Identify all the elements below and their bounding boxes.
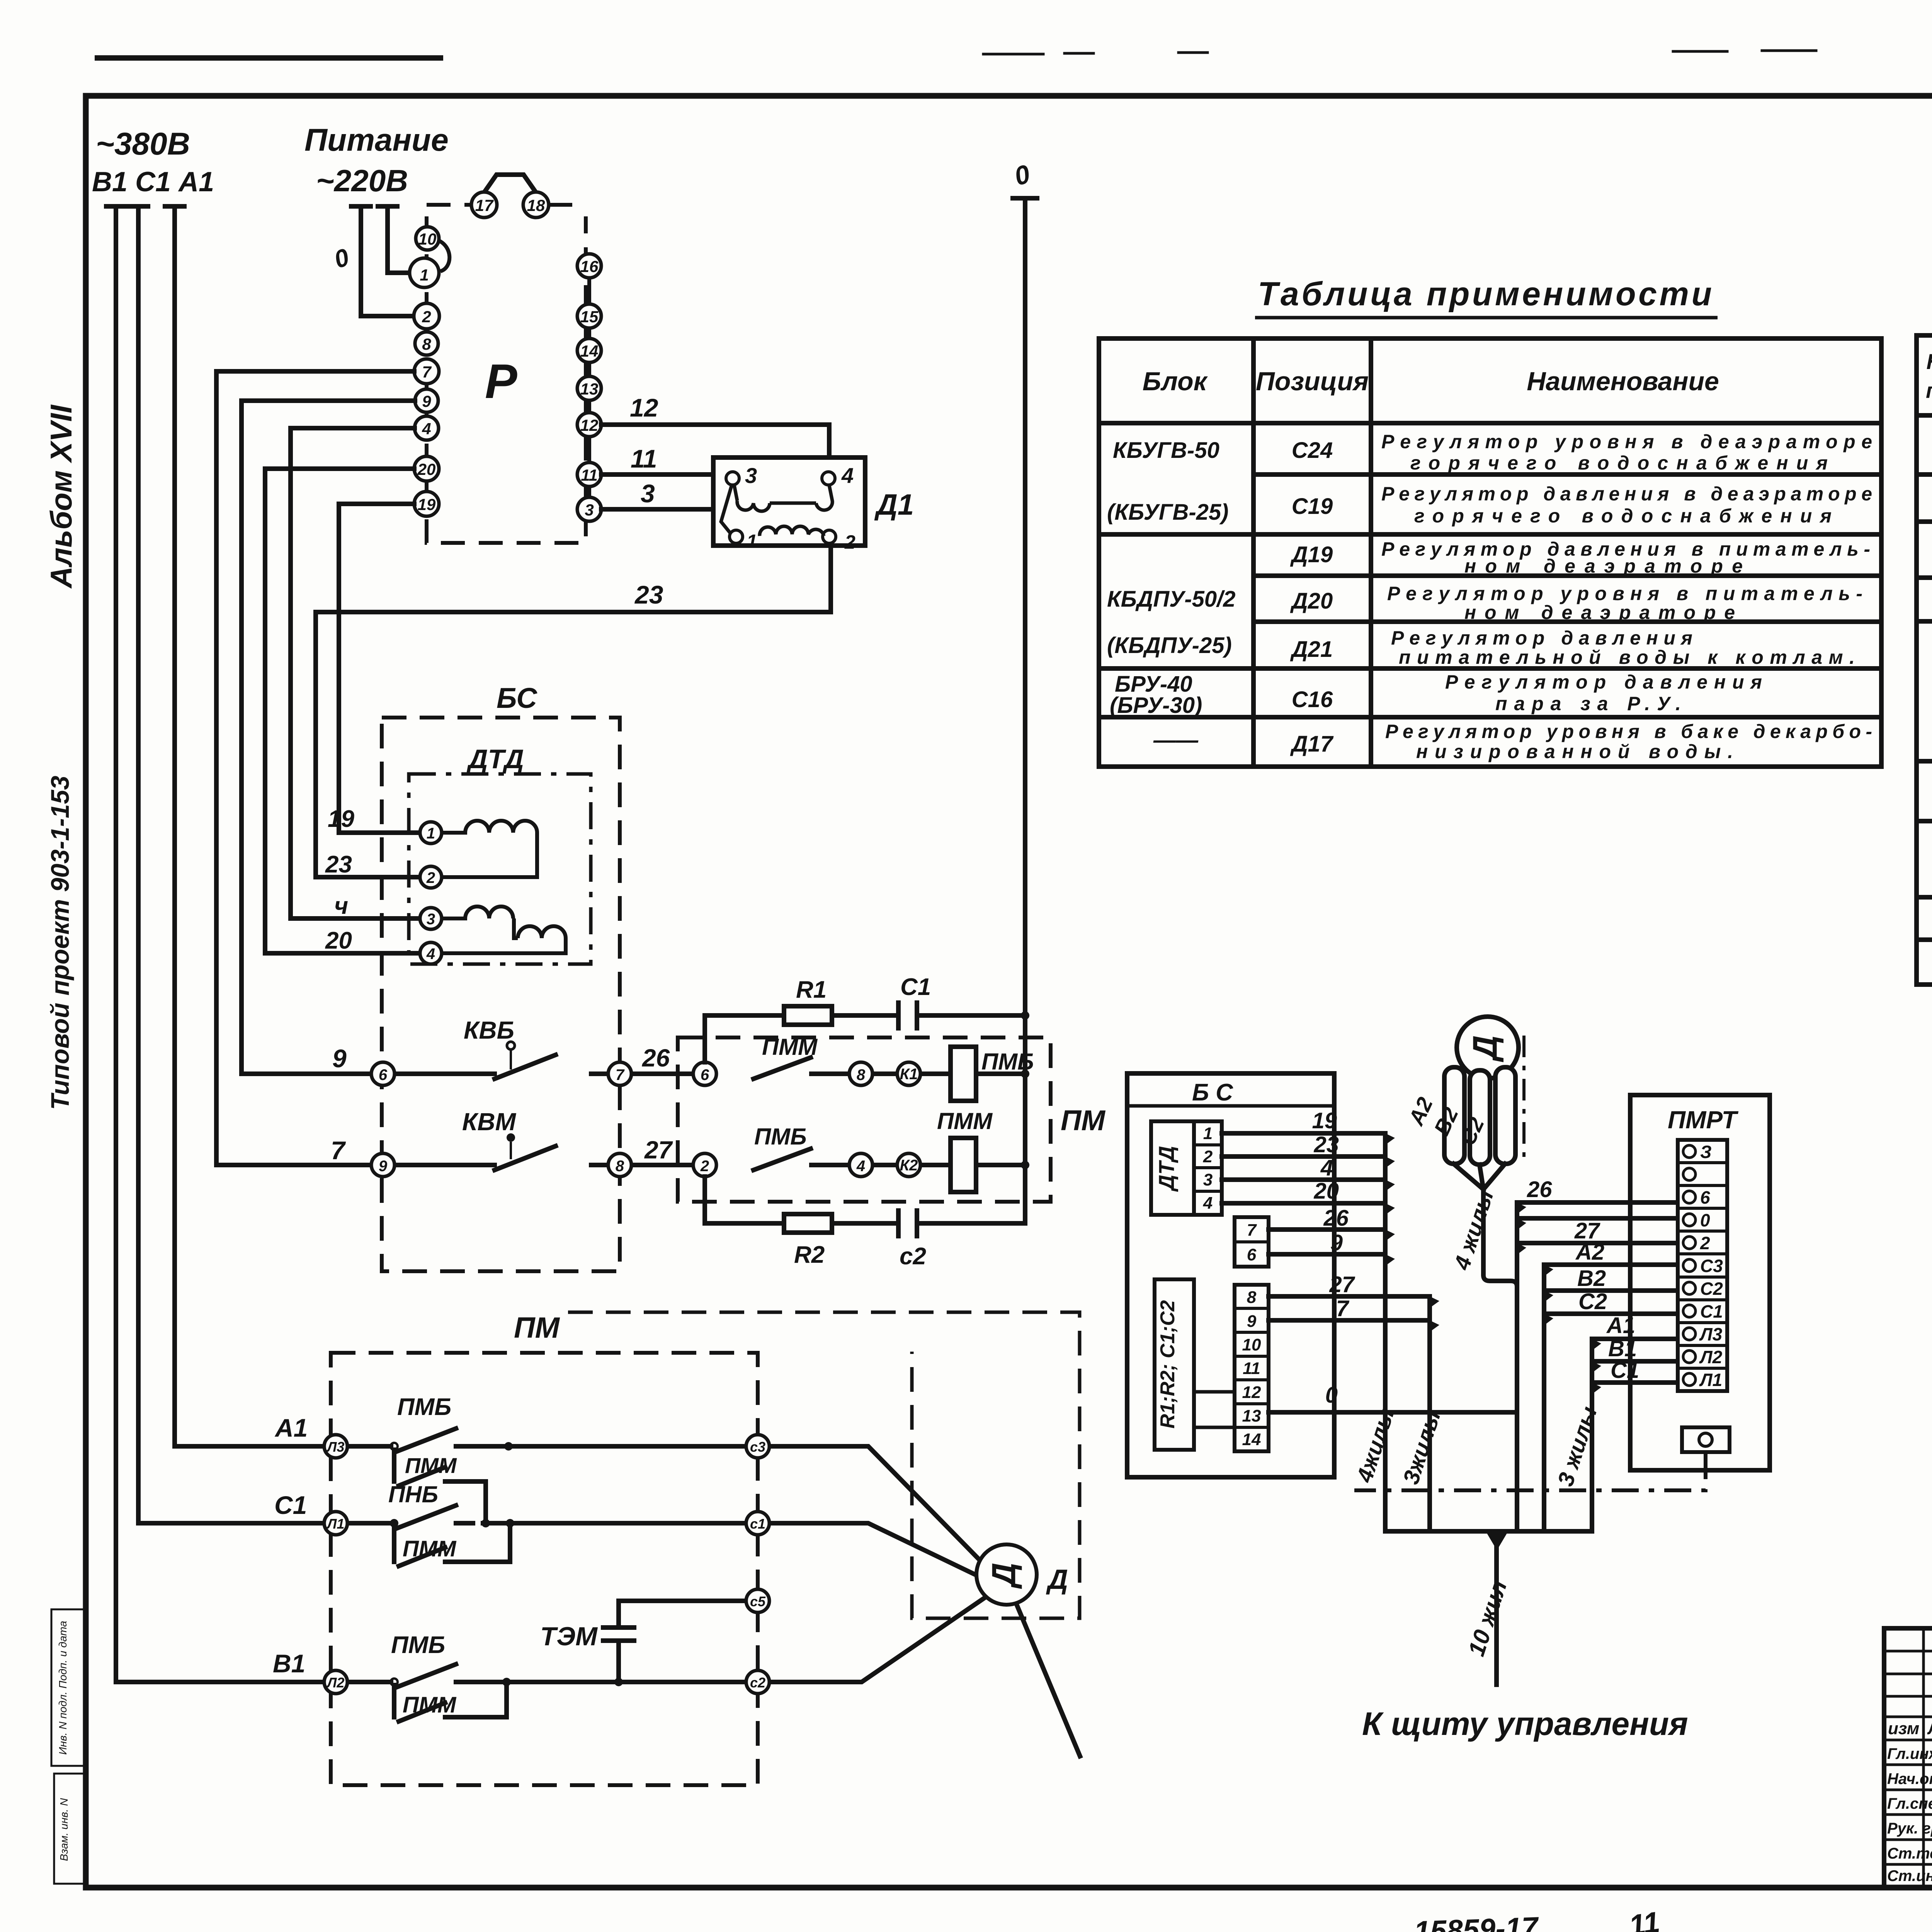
- svg-text:14: 14: [1242, 1430, 1261, 1449]
- svg-text:~220В: ~220В: [316, 163, 408, 198]
- svg-text:ДТД: ДТД: [466, 744, 524, 774]
- svg-text:З: З: [1700, 1142, 1712, 1162]
- wire B1 row: [116, 1680, 746, 1684]
- svg-text:с2: с2: [900, 1243, 926, 1270]
- terminals P right column chain: [587, 266, 591, 509]
- perechen grid: [1917, 335, 1932, 985]
- svg-text:Типовой проект 903-1-153: Типовой проект 903-1-153: [46, 776, 74, 1110]
- svg-text:Л3: Л3: [326, 1439, 345, 1455]
- wire A1: [1592, 1337, 1678, 1341]
- svg-text:0: 0: [1325, 1383, 1338, 1408]
- svg-text:С16: С16: [1292, 687, 1333, 712]
- svg-text:С19: С19: [1292, 494, 1333, 519]
- svg-text:1: 1: [420, 266, 429, 284]
- svg-text:(КБДПУ-25): (КБДПУ-25): [1107, 633, 1232, 658]
- wire C3 to motor: [769, 1446, 981, 1561]
- wire 220V feed to terminal 2: [361, 206, 414, 316]
- svg-text:13: 13: [580, 380, 599, 398]
- svg-text:Д: Д: [1046, 1564, 1068, 1595]
- svg-text:2: 2: [700, 1158, 709, 1175]
- svg-text:С1: С1: [1611, 1358, 1639, 1383]
- svg-text:Р: Р: [485, 355, 517, 408]
- wire 26: [1517, 1200, 1678, 1205]
- wire 220V feed to terminal 1: [388, 206, 410, 273]
- svg-text:ПММ: ПММ: [403, 1692, 457, 1718]
- svg-text:ПММ: ПММ: [937, 1108, 993, 1134]
- switch KVM pivot: [507, 1133, 515, 1142]
- svg-text:КБУГВ-50: КБУГВ-50: [1113, 438, 1219, 463]
- wire 12 (P:12 to D1:4): [601, 425, 829, 457]
- motor terminal capsule A2: [1444, 1067, 1464, 1164]
- wire C2: [1544, 1311, 1678, 1316]
- servomotor dash box: [568, 1312, 1080, 1618]
- wire 26: [1269, 1227, 1385, 1232]
- svg-text:20: 20: [325, 927, 352, 954]
- svg-text:~380В: ~380В: [96, 126, 190, 162]
- svg-text:15: 15: [580, 308, 599, 326]
- wire 20: [1222, 1201, 1385, 1206]
- svg-text:8: 8: [857, 1066, 866, 1083]
- svg-text:6: 6: [1247, 1245, 1257, 1264]
- svg-text:12: 12: [580, 416, 599, 434]
- D1 windings: [721, 485, 832, 536]
- wire B1 bus: [114, 206, 118, 1682]
- svg-text:К2: К2: [900, 1157, 918, 1174]
- wire C1 to motor: [769, 1523, 978, 1576]
- junction dots lower PM: [391, 1443, 398, 1450]
- cable bundle V1: [1383, 1133, 1388, 1531]
- brake TEM capacitor: [603, 1601, 746, 1679]
- svg-text:12: 12: [630, 393, 658, 422]
- wire 20 (P:20 to DTD:4): [265, 469, 420, 953]
- svg-text:ПММ: ПММ: [403, 1536, 457, 1561]
- svg-text:10: 10: [418, 230, 437, 248]
- svg-text:6: 6: [1700, 1187, 1710, 1207]
- svg-text:Позиция: Позиция: [1256, 367, 1369, 396]
- svg-text:6: 6: [379, 1066, 388, 1083]
- switch KVB pivot: [507, 1042, 515, 1049]
- regulator P dashed box: [427, 205, 586, 543]
- DTD terminals 1-4: [420, 822, 442, 964]
- svg-text:3: 3: [585, 501, 594, 519]
- svg-text:Д21: Д21: [1290, 637, 1333, 662]
- svg-text:4: 4: [1203, 1194, 1213, 1213]
- svg-text:27: 27: [644, 1136, 673, 1164]
- resistor R1 / capacitor C1 bypass: [705, 1003, 1025, 1236]
- svg-text:2: 2: [422, 308, 431, 326]
- svg-text:Гл.инж.пр: Гл.инж.пр: [1887, 1745, 1932, 1762]
- block BS dashed box: [382, 718, 620, 1271]
- svg-text:В1 С1 А1: В1 С1 А1: [92, 167, 214, 197]
- svg-text:питательной воды к кот: питательной воды к котлам.: [1399, 646, 1855, 668]
- svg-text:23: 23: [634, 580, 663, 609]
- signature table: [1884, 1628, 1932, 1888]
- switch PMM blade row1: [753, 1058, 811, 1079]
- svg-text:(БРУ-30): (БРУ-30): [1110, 693, 1202, 718]
- svg-text:3: 3: [745, 463, 757, 488]
- svg-text:2: 2: [844, 531, 855, 553]
- svg-text:с1: с1: [750, 1516, 765, 1532]
- svg-text:п/п: п/п: [1926, 378, 1932, 403]
- svg-text:ТЭМ: ТЭМ: [540, 1622, 598, 1651]
- svg-text:Наименование: Наименование: [1527, 367, 1719, 396]
- jumper loop 10-1: [438, 240, 449, 271]
- wire 9: [1269, 1252, 1385, 1257]
- svg-text:R1;R2; С1;С2: R1;R2; С1;С2: [1156, 1300, 1179, 1429]
- svg-text:ПМБ: ПМБ: [754, 1124, 807, 1150]
- wire (blank): [1517, 1216, 1678, 1221]
- node ~380V bus ticks: [106, 204, 184, 209]
- wire 3 (P:3 to D1:1): [601, 507, 713, 512]
- coil K1 (PMB): [951, 1047, 976, 1101]
- svg-text:ч: ч: [334, 893, 348, 919]
- svg-text:К1: К1: [900, 1066, 918, 1083]
- junction dots on 0 bus: [1021, 1011, 1029, 1020]
- node 0 bus tick: [1010, 196, 1039, 201]
- jumper arc 17-18: [484, 175, 536, 192]
- svg-text:КВМ: КВМ: [462, 1108, 517, 1136]
- svg-text:10: 10: [1242, 1335, 1261, 1354]
- svg-text:23: 23: [1313, 1132, 1339, 1157]
- svg-text:7: 7: [616, 1066, 625, 1083]
- DTD winding 1-2: [442, 821, 566, 953]
- svg-text:Гл.спец.: Гл.спец.: [1887, 1795, 1932, 1812]
- DTD winding 3-4: [442, 906, 513, 918]
- svg-text:4: 4: [841, 463, 854, 488]
- wire 9 (P:9 to KVB row): [241, 401, 415, 1074]
- wires BS to cable bundles: [1222, 1133, 1517, 1531]
- wire 0 bus vertical: [1023, 198, 1027, 1223]
- svg-text:11: 11: [581, 466, 598, 484]
- svg-text:9: 9: [422, 392, 431, 410]
- svg-text:4: 4: [1320, 1155, 1333, 1180]
- svg-text:20: 20: [1313, 1179, 1339, 1204]
- motor terminal capsule C2: [1495, 1067, 1515, 1164]
- svg-text:К щиту управления: К щиту управления: [1362, 1706, 1688, 1742]
- svg-text:4: 4: [426, 946, 435, 963]
- wire 27: [1269, 1294, 1430, 1299]
- terminal strip 8-14: [1235, 1285, 1269, 1451]
- svg-text:горячего водоснабжения: горячего водоснабжения: [1414, 505, 1832, 527]
- sensor DTD dash-dot box: [409, 774, 591, 964]
- terminal 6 (BS left, KVB row): [371, 1062, 920, 1177]
- svg-text:9: 9: [332, 1044, 347, 1073]
- cable 10 zhil: [1494, 1540, 1499, 1685]
- svg-text:Л1: Л1: [1699, 1370, 1722, 1390]
- svg-text:С2: С2: [1700, 1279, 1723, 1299]
- svg-text:С2: С2: [1578, 1289, 1607, 1314]
- wire A1 bus: [172, 206, 177, 1446]
- svg-text:Д1: Д1: [874, 488, 914, 521]
- svg-text:19: 19: [1312, 1108, 1337, 1133]
- svg-text:КБДПУ-50/2: КБДПУ-50/2: [1107, 587, 1236, 612]
- svg-text:Д19: Д19: [1290, 542, 1333, 567]
- svg-text:11: 11: [1243, 1359, 1260, 1378]
- svg-text:ПМ: ПМ: [514, 1311, 560, 1344]
- svg-text:1: 1: [1203, 1124, 1213, 1143]
- svg-text:19: 19: [418, 495, 436, 514]
- svg-text:С1: С1: [1700, 1301, 1723, 1321]
- svg-text:КВБ: КВБ: [464, 1016, 514, 1044]
- svg-text:с3: с3: [750, 1439, 765, 1455]
- svg-text:В1: В1: [273, 1649, 305, 1678]
- svg-text:2: 2: [1700, 1233, 1710, 1253]
- svg-text:16: 16: [580, 257, 599, 276]
- svg-text:2: 2: [1203, 1147, 1213, 1166]
- svg-text:3: 3: [427, 911, 435, 928]
- terminals L3 L1 L2: [324, 1435, 769, 1694]
- svg-text:17: 17: [475, 196, 494, 214]
- svg-text:с5: с5: [750, 1594, 766, 1609]
- svg-text:26: 26: [1527, 1177, 1552, 1202]
- svg-text:19: 19: [328, 806, 354, 832]
- dash-dot lead right of capsules: [1522, 1036, 1526, 1163]
- scan artifact line top: [97, 55, 440, 61]
- svg-text:С1: С1: [274, 1491, 307, 1519]
- svg-text:ПМБ: ПМБ: [391, 1632, 445, 1658]
- starter PM dashed box: [331, 1353, 758, 1785]
- svg-text:7: 7: [331, 1136, 346, 1165]
- PMRT lower small box: [1682, 1427, 1730, 1452]
- wire B1: [1592, 1359, 1678, 1364]
- wire 23 (D1:2 to DTD:2): [316, 546, 831, 877]
- svg-text:0: 0: [1700, 1210, 1710, 1230]
- svg-text:С24: С24: [1292, 438, 1333, 463]
- switch KVM blade: [495, 1146, 556, 1170]
- svg-text:23: 23: [325, 851, 352, 878]
- motor D circle (montage): [1457, 1017, 1519, 1078]
- svg-text:20: 20: [417, 460, 436, 478]
- svg-text:Рук. гр: Рук. гр: [1887, 1820, 1932, 1837]
- svg-text:R2: R2: [794, 1242, 825, 1268]
- motor cable merge: [1385, 1164, 1592, 1685]
- svg-text:1: 1: [427, 825, 435, 842]
- svg-text:НН: НН: [1927, 349, 1932, 374]
- svg-text:ДТД: ДТД: [1154, 1146, 1179, 1192]
- svg-text:9: 9: [379, 1158, 388, 1175]
- svg-text:R1: R1: [796, 976, 827, 1003]
- left margin mini boxes: [51, 1609, 84, 1766]
- svg-text:26: 26: [642, 1044, 670, 1072]
- svg-text:9: 9: [1330, 1230, 1343, 1255]
- terminals P left column: [410, 192, 549, 516]
- contactor PM dashed box: [678, 1037, 1051, 1202]
- svg-text:9: 9: [1247, 1312, 1257, 1331]
- svg-text:7: 7: [1336, 1296, 1350, 1321]
- wire 19: [1222, 1131, 1385, 1136]
- svg-text:горячего водоснабжения: горячего водоснабжения: [1410, 452, 1828, 474]
- motor terminal capsule B2: [1470, 1070, 1490, 1165]
- svg-text:(КБУГВ-25): (КБУГВ-25): [1107, 500, 1229, 525]
- servomotor D circle: [976, 1544, 1037, 1605]
- svg-text:1: 1: [747, 531, 757, 552]
- wire 7 (P:7 to KVM row): [216, 371, 414, 1165]
- wire C1 bus: [136, 206, 141, 1523]
- svg-text:——: ——: [1153, 728, 1199, 753]
- svg-text:13: 13: [1242, 1406, 1261, 1425]
- svg-text:изм: изм: [1888, 1719, 1919, 1738]
- resistor group R1R2C1C2 box: [1155, 1279, 1194, 1450]
- svg-text:С1: С1: [900, 974, 931, 1000]
- svg-text:Таблица применимости: Таблица применимости: [1258, 276, 1712, 313]
- coil K2 (PMM): [951, 1138, 976, 1192]
- svg-text:3: 3: [641, 479, 655, 508]
- svg-text:Л3: Л3: [1699, 1324, 1723, 1344]
- cable bundle V2: [1427, 1296, 1432, 1531]
- title block outer: [1884, 1628, 1932, 1888]
- svg-text:Взам. инв. N: Взам. инв. N: [58, 1798, 70, 1861]
- svg-text:12: 12: [1242, 1383, 1261, 1402]
- wire 11 (P:11 to D1:3): [601, 472, 713, 477]
- svg-text:4: 4: [422, 420, 431, 438]
- svg-text:7: 7: [422, 363, 432, 381]
- svg-text:Л1: Л1: [326, 1516, 345, 1532]
- starter PMRT box: [1630, 1095, 1770, 1470]
- svg-text:8: 8: [422, 335, 431, 353]
- svg-text:Д: Д: [1466, 1035, 1504, 1063]
- svg-text:Л2: Л2: [326, 1675, 345, 1690]
- svg-text:Альбом XVII: Альбом XVII: [44, 405, 78, 589]
- wire C1 row: [138, 1521, 391, 1526]
- svg-text:Ст.техн.: Ст.техн.: [1887, 1845, 1932, 1862]
- svg-text:Б С: Б С: [1192, 1079, 1233, 1106]
- svg-text:Д20: Д20: [1290, 588, 1333, 614]
- wire KVM row: [395, 1163, 1025, 1167]
- resistor R2 / capacitor C2 bypass: [705, 1177, 784, 1223]
- terminal strip 7/6: [1235, 1217, 1269, 1267]
- switch PMB blade row2: [753, 1149, 811, 1170]
- wire 27: [1517, 1241, 1678, 1245]
- svg-text:С3: С3: [1700, 1256, 1723, 1276]
- svg-text:ПМ: ПМ: [1061, 1104, 1105, 1136]
- svg-text:Регулятор давления в деаэрат: Регулятор давления в деаэраторе: [1381, 483, 1872, 505]
- bundle merge triangles: [1385, 1133, 1439, 1332]
- svg-text:ПМРТ: ПМРТ: [1668, 1106, 1739, 1134]
- svg-text:11: 11: [631, 444, 657, 473]
- collector line: [1385, 1529, 1592, 1534]
- svg-text:6: 6: [701, 1066, 709, 1083]
- wire from PMRT small box: [1354, 1452, 1706, 1490]
- wires to PMRT upper group: [1517, 1202, 1678, 1383]
- svg-text:А2: А2: [1575, 1240, 1604, 1265]
- junction box BS (montage): [1127, 1073, 1334, 1477]
- svg-text:26: 26: [1323, 1206, 1349, 1231]
- svg-text:27: 27: [1329, 1272, 1355, 1297]
- svg-text:Ст.инж.: Ст.инж.: [1887, 1867, 1932, 1884]
- svg-text:ПММ: ПММ: [405, 1453, 457, 1478]
- svg-text:11: 11: [1627, 1906, 1662, 1932]
- svg-text:18: 18: [527, 196, 545, 214]
- svg-text:Инв. N подл. Подп. и дата: Инв. N подл. Подп. и дата: [57, 1621, 69, 1755]
- wire motor tail: [1016, 1604, 1080, 1756]
- wire C2 to motor: [769, 1594, 990, 1682]
- wire 4 (P:4 to DTD:3): [291, 428, 420, 918]
- svg-text:ПНБ: ПНБ: [388, 1481, 438, 1507]
- svg-text:2: 2: [426, 869, 435, 886]
- node 220V feed ticks: [351, 204, 397, 209]
- D1 terminals: [726, 472, 836, 543]
- svg-text:А1: А1: [274, 1413, 308, 1442]
- svg-text:ном деаэраторе: ном деаэраторе: [1464, 602, 1735, 623]
- svg-text:Блок: Блок: [1143, 367, 1208, 396]
- svg-text:3: 3: [1203, 1170, 1213, 1189]
- svg-text:Нач.отд.: Нач.отд.: [1887, 1770, 1932, 1787]
- svg-text:14: 14: [580, 342, 599, 360]
- svg-text:Л2: Л2: [1699, 1347, 1723, 1367]
- wire 7: [1269, 1318, 1430, 1323]
- svg-text:8: 8: [616, 1158, 624, 1175]
- wire A2: [1544, 1262, 1678, 1267]
- svg-text:Д17: Д17: [1290, 731, 1334, 757]
- svg-text:с2: с2: [750, 1675, 765, 1690]
- svg-text:7: 7: [1247, 1221, 1257, 1240]
- wire A1 row: [116, 1429, 1080, 1756]
- wire C1: [1592, 1380, 1678, 1385]
- PMRT terminal strip: [1678, 1140, 1727, 1391]
- svg-text:8: 8: [1247, 1288, 1257, 1307]
- svg-text:ПМБ: ПМБ: [397, 1394, 451, 1420]
- sensor D1 box: [713, 457, 865, 546]
- wire B2: [1544, 1288, 1678, 1293]
- wire 4: [1222, 1177, 1385, 1182]
- wire 0: [1269, 1410, 1517, 1415]
- svg-text:В2: В2: [1577, 1266, 1606, 1291]
- wire 23: [1222, 1154, 1385, 1159]
- table primenimosti grid: [1099, 338, 1881, 767]
- svg-text:Питание: Питание: [304, 122, 449, 158]
- svg-text:БС: БС: [497, 682, 537, 714]
- switch KVB blade: [495, 1055, 556, 1079]
- wire KVB row: [395, 1055, 1025, 1170]
- svg-text:Д: Д: [986, 1563, 1023, 1589]
- wire 19 (P:19 to DTD:1): [339, 504, 420, 833]
- sensor DTD connector (montage): [1151, 1121, 1194, 1215]
- svg-text:4: 4: [856, 1158, 865, 1175]
